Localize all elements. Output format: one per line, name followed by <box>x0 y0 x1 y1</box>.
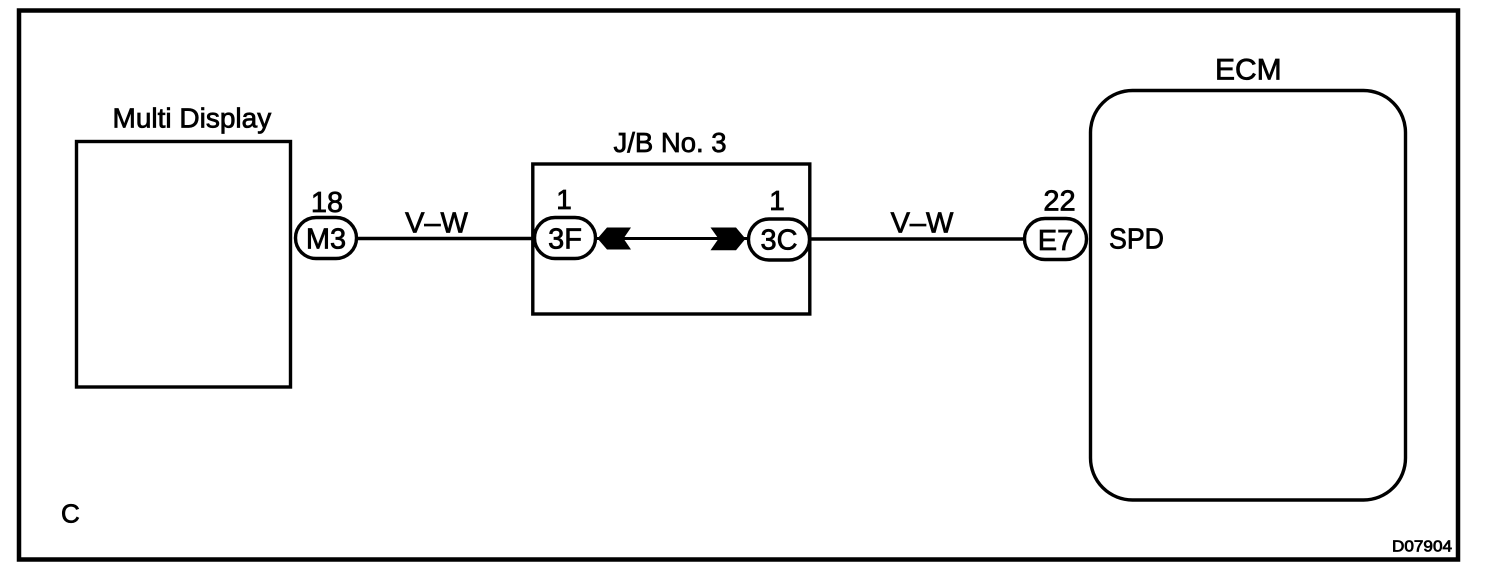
svg-text:D07904: D07904 <box>1392 539 1452 556</box>
svg-text:V–W: V–W <box>405 207 468 239</box>
svg-text:3F: 3F <box>548 224 582 256</box>
svg-text:Multi Display: Multi Display <box>113 102 272 133</box>
svg-text:18: 18 <box>311 187 343 219</box>
svg-text:J/B No. 3: J/B No. 3 <box>614 127 727 158</box>
svg-text:3C: 3C <box>760 225 797 257</box>
svg-text:1: 1 <box>556 184 572 215</box>
svg-text:V–W: V–W <box>891 208 954 240</box>
svg-text:M3: M3 <box>306 224 346 256</box>
svg-text:E7: E7 <box>1038 225 1073 257</box>
svg-text:C: C <box>61 499 80 529</box>
svg-text:SPD: SPD <box>1109 224 1164 256</box>
svg-text:22: 22 <box>1043 186 1075 218</box>
svg-text:1: 1 <box>769 185 785 216</box>
svg-text:ECM: ECM <box>1215 54 1282 87</box>
